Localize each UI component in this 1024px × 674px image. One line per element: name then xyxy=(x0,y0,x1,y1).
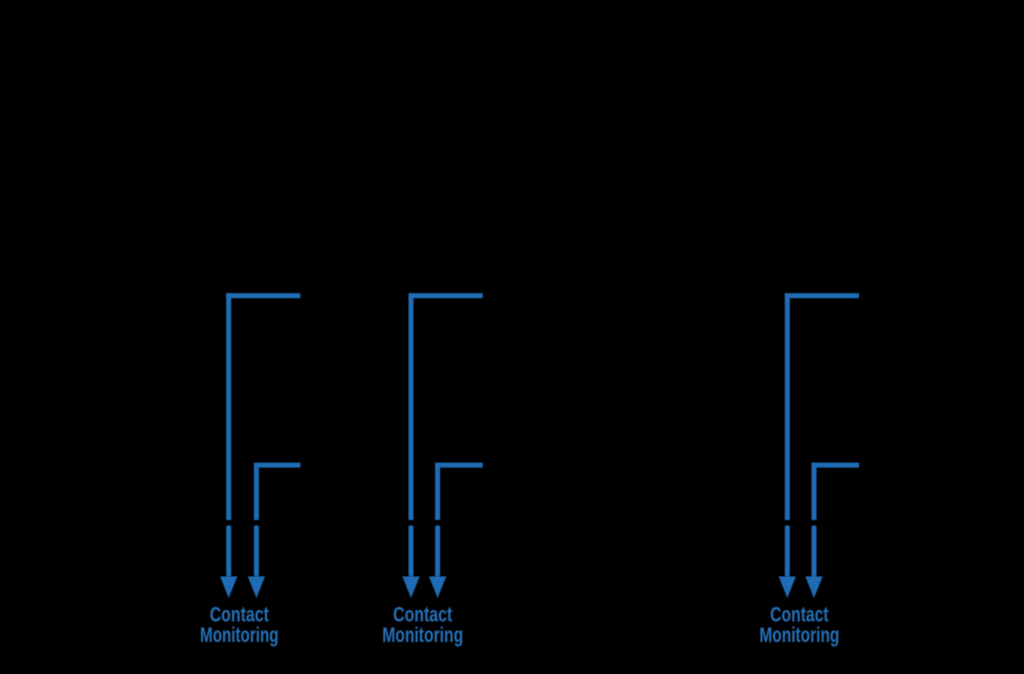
svg-text:Monitoring: Monitoring xyxy=(382,624,463,647)
svg-text:Monitoring: Monitoring xyxy=(200,624,279,647)
bracket 3 long vertical wire upper segment xyxy=(785,293,790,520)
bracket 1 left arrowhead xyxy=(220,576,237,598)
bracket 3 right arrow shaft lower segment xyxy=(812,525,817,576)
bracket 3 mid horizontal wire xyxy=(812,463,860,468)
svg-text:Monitoring: Monitoring xyxy=(759,624,839,647)
bracket 3 left arrow shaft lower segment xyxy=(785,525,790,576)
bracket 2 right arrowhead xyxy=(429,576,446,598)
bracket 3 top horizontal wire xyxy=(785,293,859,298)
bracket 1 top horizontal wire xyxy=(226,293,300,298)
bracket 2 short vertical wire upper segment xyxy=(435,463,440,520)
bracket 1 long vertical wire upper segment xyxy=(226,293,231,520)
bracket 3 right arrowhead xyxy=(805,576,822,598)
bracket 3 short vertical wire upper segment xyxy=(812,463,817,520)
bracket 1 right arrowhead xyxy=(248,576,265,598)
bracket 1 right arrow shaft lower segment xyxy=(254,525,259,576)
bracket 1 short vertical wire upper segment xyxy=(254,463,259,520)
bracket 3 left arrowhead xyxy=(779,576,796,598)
bracket 2 long vertical wire upper segment xyxy=(409,293,414,520)
bracket 1 mid horizontal wire xyxy=(254,463,301,468)
bracket 2 left arrowhead xyxy=(402,576,419,598)
bracket 2 mid horizontal wire xyxy=(435,463,483,468)
bracket 2 left arrow shaft lower segment xyxy=(409,525,414,576)
bracket 1 left arrow shaft lower segment xyxy=(226,525,231,576)
bracket 2 top horizontal wire xyxy=(409,293,483,298)
bracket 2 right arrow shaft lower segment xyxy=(435,525,440,576)
